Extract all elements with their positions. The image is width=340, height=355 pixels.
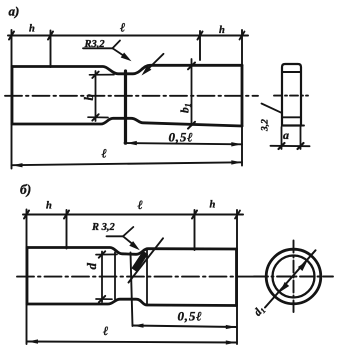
specimen A left end edge: [11, 67, 14, 125]
specimen B bottom edge with waist fillets: [27, 299, 237, 305]
svg-text:h: h: [29, 24, 35, 35]
svg-text:d: d: [84, 263, 99, 270]
b tick top: [92, 72, 98, 78]
dimension b1 line: [191, 59, 193, 126]
svg-text:0,5ℓ: 0,5ℓ: [178, 309, 203, 324]
b1 tick top: [188, 63, 195, 70]
circle horizontal centerline: [254, 276, 333, 278]
round section outer circle: [266, 249, 321, 304]
d1 arrow lower-left: [280, 282, 290, 292]
extension line left x=26.5: [26, 210, 28, 345]
weld zone line v1: [114, 252, 116, 299]
svg-text:h: h: [46, 201, 52, 212]
b extension top: [90, 74, 115, 76]
extension line right x=242: [241, 30, 243, 166]
dimension d line: [101, 252, 103, 303]
tick at x=11.5: [9, 32, 14, 40]
R leader underline (bottom): [107, 235, 124, 237]
dimension line h-l-h (bottom drawing): [23, 214, 243, 216]
R3,2 leader kink up: [113, 41, 121, 49]
extension line x=50.5: [50, 31, 52, 68]
svg-text:ℓ: ℓ: [120, 21, 125, 35]
l left arrow: [12, 163, 23, 167]
oblique weld seam line: [129, 238, 164, 282]
side view upper weld line: [283, 71, 301, 73]
R3,2 leader arrow to right fillet: [145, 54, 164, 72]
svg-text:b: b: [81, 94, 96, 101]
tick at x=242: [240, 32, 245, 40]
tick at x=200: [198, 32, 203, 40]
extension line right x=237: [236, 210, 238, 344]
b tick bottom: [92, 114, 98, 120]
R leader arrow (bottom): [123, 236, 135, 246]
l right arrow: [231, 160, 242, 164]
specimen A right end edge: [241, 65, 244, 126]
side view bottom edge extension: [301, 125, 304, 127]
tick at x=50.5: [48, 32, 53, 40]
circle vertical centerline: [293, 241, 295, 313]
d tick bottom: [99, 296, 105, 302]
weld zone line v2 / 0,5l extension: [131, 253, 133, 327]
svg-text:3,2: 3,2: [261, 119, 271, 132]
R3,2 leader arrow to left fillet: [113, 48, 127, 57]
tick at x=66.5: [64, 211, 69, 219]
extension line x=200: [199, 31, 201, 60]
a extension left: [281, 127, 283, 149]
dimension l line (bottom drawing): [27, 342, 237, 343]
R leader kink up (bottom): [123, 227, 133, 236]
svg-text:0,5ℓ: 0,5ℓ: [169, 130, 194, 145]
tick at x=237.5: [235, 211, 240, 219]
centerline axis (top drawing): [5, 95, 258, 97]
0,5l right arrow (bottom): [226, 325, 237, 329]
svg-text:ℓ: ℓ: [103, 324, 108, 338]
d tick top: [99, 251, 105, 257]
a tick right: [298, 143, 304, 149]
round section inner circle: [273, 256, 315, 298]
tick at x=194.5: [192, 211, 197, 219]
dimension b line: [95, 71, 97, 121]
svg-text:ℓ: ℓ: [138, 198, 143, 212]
l right arrow (bottom drawing): [226, 340, 237, 344]
dimension l line (top drawing bottom): [12, 162, 243, 165]
0,5l right arrow: [231, 142, 242, 146]
dimension 0,5l line (top drawing): [125, 143, 243, 144]
svg-text:h: h: [210, 200, 216, 211]
svg-text:h: h: [219, 25, 225, 36]
a extension right: [300, 127, 302, 149]
d extension top: [96, 253, 117, 255]
svg-text:а): а): [9, 4, 20, 19]
svg-text:б): б): [20, 182, 31, 197]
dimension 0,5l line (bottom drawing): [133, 326, 237, 328]
d extension bottom: [96, 298, 112, 300]
specimen B left end edge: [26, 248, 29, 305]
weld butt line W1: [124, 71, 127, 143]
extension line left x=11.5: [11, 30, 13, 169]
centerline axis (bottom drawing): [17, 276, 256, 278]
roughness leader 3,2: [262, 104, 282, 113]
specimen B top edge with waist fillets: [27, 248, 237, 255]
extension line x=194.5: [194, 210, 196, 250]
specimen B right end edge: [235, 249, 238, 306]
tick at x=26.5: [24, 211, 29, 219]
side view centerline: [274, 95, 308, 97]
oblique weld seam filled band: [131, 251, 148, 272]
side view lower weld line: [282, 116, 301, 118]
0,5l left arrow (bottom): [133, 324, 144, 328]
a tick left: [279, 143, 285, 149]
specimen A bottom edge with waist fillets: [12, 118, 242, 126]
dimension line h-l-h (top drawing): [8, 35, 248, 37]
side view plate outline: [282, 64, 301, 126]
0,5l left arrow: [126, 141, 137, 145]
specimen A top edge with waist fillets R3,2: [12, 65, 242, 74]
svg-text:R 3,2: R 3,2: [91, 222, 116, 233]
R3,2 leader underline: [83, 47, 113, 49]
svg-text:ℓ: ℓ: [102, 147, 107, 161]
b extension bottom: [88, 116, 108, 118]
extension line x=66.5: [66, 210, 68, 249]
dimension a line: [271, 145, 310, 147]
l left arrow (bottom drawing): [28, 339, 39, 343]
b1 tick bottom: [188, 122, 195, 129]
weld zone line v3: [146, 249, 148, 305]
dimension d1 diagonal line: [265, 250, 316, 307]
d1 arrow upper-right: [298, 261, 308, 271]
svg-text:a: a: [283, 128, 289, 142]
